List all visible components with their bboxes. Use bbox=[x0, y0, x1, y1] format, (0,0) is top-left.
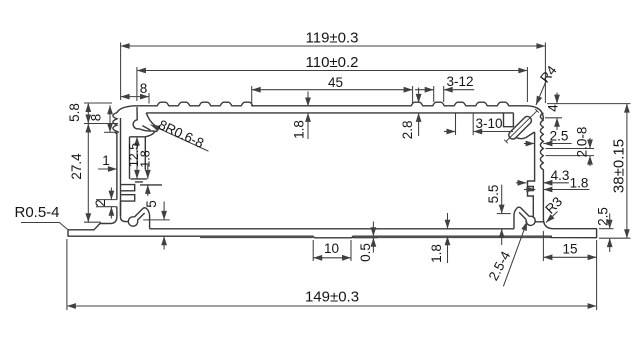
top-right capsule centerline bbox=[504, 109, 539, 143]
right wall inner face with slots bbox=[528, 132, 535, 202]
dim 12.5 bbox=[127, 137, 141, 179]
dim 8 (left wall) bbox=[89, 105, 119, 132]
top-right screw channel capsule bbox=[509, 116, 532, 139]
svg-text:5.8: 5.8 bbox=[67, 103, 82, 122]
svg-text:110±0.2: 110±0.2 bbox=[306, 54, 359, 71]
dim 1 (wall thickness) bbox=[98, 153, 117, 169]
svg-text:119±0.3: 119±0.3 bbox=[306, 30, 359, 47]
dim 2.5 (plate right) bbox=[595, 207, 613, 252]
svg-text:45: 45 bbox=[328, 75, 343, 90]
dim 27.4 bbox=[69, 124, 101, 223]
svg-text:R0.5-4: R0.5-4 bbox=[14, 204, 59, 221]
left wall inner skin bbox=[121, 118, 135, 216]
svg-text:27.4: 27.4 bbox=[69, 153, 84, 180]
profile top wall outer surface bbox=[134, 102, 543, 119]
svg-text:2: 2 bbox=[93, 199, 108, 207]
leader 8R0.6-8 bbox=[151, 117, 209, 151]
bottom-right screw channel hook bbox=[514, 202, 543, 229]
top-left screw channel hook bbox=[133, 107, 158, 137]
leader 2.5-4 bbox=[486, 222, 527, 287]
dim 2 (left step) bbox=[93, 188, 117, 219]
svg-text:2.5: 2.5 bbox=[550, 129, 569, 144]
svg-text:1.8: 1.8 bbox=[292, 120, 307, 139]
dim 3-10 bbox=[444, 114, 513, 136]
svg-text:3-12: 3-12 bbox=[446, 74, 473, 89]
dim 38±0.15 bbox=[547, 104, 631, 239]
svg-text:38±0.15: 38±0.15 bbox=[611, 139, 628, 193]
dim 15 bbox=[543, 231, 596, 261]
svg-text:1.8: 1.8 bbox=[429, 244, 444, 263]
svg-text:4.3: 4.3 bbox=[551, 168, 570, 183]
svg-text:1.8: 1.8 bbox=[570, 176, 589, 191]
profile right wall and plate outline bbox=[68, 113, 597, 238]
dim 5.5 bbox=[486, 185, 511, 245]
inner ceiling surface with grooves bbox=[146, 112, 513, 114]
dim 5.8 bbox=[67, 103, 118, 124]
dim 119±0.3 bbox=[121, 30, 546, 104]
dim 2.0-8 bbox=[546, 127, 595, 166]
left wall outer skin with serrations and vent slot bbox=[110, 106, 134, 224]
leader R0.5-4 bbox=[14, 204, 67, 229]
dim 0.5 bbox=[353, 222, 378, 262]
svg-text:2.8: 2.8 bbox=[400, 120, 415, 139]
svg-text:5.5: 5.5 bbox=[486, 185, 501, 204]
svg-text:1.8: 1.8 bbox=[138, 150, 152, 167]
dim 4.3 bbox=[516, 168, 569, 183]
dim 149±0.3 bbox=[67, 239, 597, 310]
dim 45 bbox=[252, 75, 413, 103]
svg-text:8: 8 bbox=[140, 81, 148, 96]
top-right ceiling step bbox=[504, 113, 514, 127]
dim 1.8 (plate) bbox=[429, 213, 447, 263]
svg-text:0.5: 0.5 bbox=[358, 243, 373, 262]
dim 110±0.2 bbox=[137, 54, 528, 102]
plate recess line bbox=[200, 237, 551, 239]
dim 10 bbox=[313, 240, 351, 261]
interior floor surface bbox=[150, 228, 514, 230]
dim 1.8 (right) bbox=[524, 176, 590, 191]
dim 4 (right corner) bbox=[545, 93, 562, 131]
svg-text:3-10: 3-10 bbox=[475, 116, 502, 131]
svg-text:149±0.3: 149±0.3 bbox=[305, 289, 359, 306]
dim 5 (left) bbox=[143, 200, 170, 249]
svg-text:10: 10 bbox=[324, 241, 339, 256]
dim 1.8 (top wall) bbox=[292, 92, 308, 140]
top-right hook to wall join bbox=[516, 132, 535, 139]
leader R4 bbox=[536, 62, 560, 105]
dim 2.5 (right wall) bbox=[524, 129, 572, 144]
dim 8 (top) bbox=[121, 81, 149, 104]
svg-text:5: 5 bbox=[144, 200, 159, 208]
svg-text:8: 8 bbox=[89, 114, 104, 122]
left PCB rail plateau bbox=[130, 137, 163, 185]
svg-text:4: 4 bbox=[546, 104, 561, 112]
dim 3-12 bbox=[415, 74, 474, 102]
svg-text:2.5: 2.5 bbox=[595, 207, 610, 226]
dim 2.8 bbox=[400, 88, 418, 140]
svg-text:15: 15 bbox=[562, 242, 577, 257]
svg-text:2.0-8: 2.0-8 bbox=[574, 127, 589, 158]
leader R3 bbox=[542, 194, 565, 223]
dim 1.8 (left slot) bbox=[138, 150, 152, 196]
bottom-left screw channel hook bbox=[121, 201, 150, 229]
svg-text:1: 1 bbox=[102, 153, 110, 168]
